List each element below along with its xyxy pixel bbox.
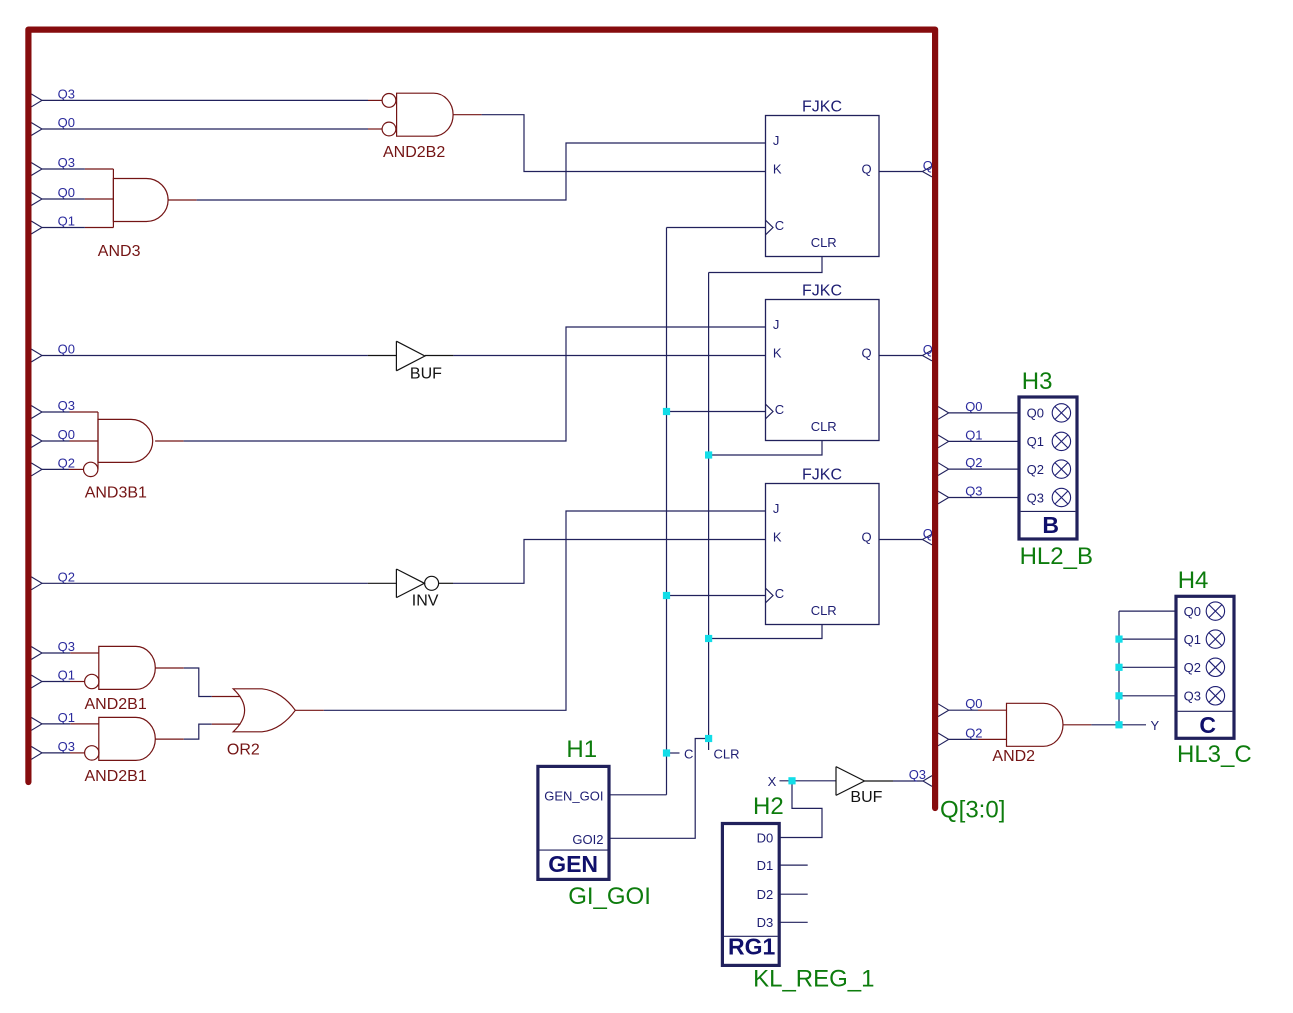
label HL2_B [1020, 543, 1093, 570]
junction dot 6 [705, 735, 712, 742]
svg-text:Q2: Q2 [1027, 462, 1044, 477]
svg-text:D3: D3 [757, 915, 774, 930]
svg-text:Q1: Q1 [58, 710, 75, 725]
svg-text:Q3: Q3 [58, 398, 75, 413]
svg-text:Q0: Q0 [965, 399, 982, 414]
svg-text:AND3: AND3 [98, 243, 141, 260]
svg-text:Q1: Q1 [965, 427, 982, 442]
svg-text:AND2: AND2 [992, 748, 1035, 765]
svg-text:Q0: Q0 [58, 185, 75, 200]
input tap Q0 (to AND3) [31, 185, 113, 205]
input tap Q3 (to AND2B1 b) [31, 739, 84, 759]
svg-text:FJKC: FJKC [802, 283, 842, 300]
svg-text:AND2B2: AND2B2 [383, 144, 445, 161]
input tap Q3 (to AND3) [31, 155, 113, 175]
wire OR2 out to FJKC3 J [324, 511, 766, 710]
label H1 [566, 736, 597, 763]
input tap Q0 (to AND3B1) [31, 427, 98, 447]
svg-text:K: K [773, 162, 782, 177]
svg-text:OR2: OR2 [227, 742, 260, 759]
svg-text:C: C [1199, 712, 1216, 738]
junction dot 11 [1115, 721, 1122, 728]
svg-text:Q: Q [862, 530, 872, 545]
input tap Q3 (to AND2B2) [31, 87, 382, 107]
input tap Q2 (to AND3B1) [31, 456, 83, 476]
bus tap Q0 to AND2 [938, 696, 1007, 716]
svg-text:AND2B1: AND2B1 [85, 696, 147, 713]
label H2 [753, 793, 784, 820]
net CLR vertical with taps [609, 257, 822, 839]
svg-text:Q2: Q2 [965, 455, 982, 470]
svg-text:Q: Q [923, 526, 933, 541]
wire BUF out Q3 to bus [893, 767, 932, 786]
svg-text:C: C [775, 402, 784, 417]
svg-text:Q2: Q2 [965, 725, 982, 740]
svg-text:INV: INV [412, 593, 439, 610]
svg-text:Q0: Q0 [965, 696, 982, 711]
svg-text:Q0: Q0 [1027, 406, 1044, 421]
label HL3_C [1177, 741, 1252, 768]
svg-text:Q: Q [923, 342, 933, 357]
svg-text:Q0: Q0 [58, 115, 75, 130]
input tap Q3 (to AND2B1 a) [31, 639, 98, 659]
register block RG1 (H2) [722, 824, 779, 966]
svg-text:AND2B1: AND2B1 [85, 768, 147, 785]
svg-text:KL_REG_1: KL_REG_1 [753, 965, 874, 992]
bus tap Q2 to AND2 [938, 725, 1007, 745]
svg-text:C: C [775, 586, 784, 601]
pin D1 stub [779, 864, 808, 866]
svg-text:Q0: Q0 [1184, 604, 1201, 619]
svg-text:D1: D1 [757, 858, 774, 873]
svg-text:H3: H3 [1022, 368, 1053, 395]
svg-text:HL2_B: HL2_B [1020, 543, 1093, 570]
bus tap Q0 to H3 [938, 399, 1019, 419]
svg-text:CLR: CLR [811, 235, 837, 250]
wire AND3 out to FJKC1 J [197, 143, 766, 200]
svg-text:Q1: Q1 [1027, 434, 1044, 449]
pin D2 stub [779, 893, 808, 895]
label Q[3:0] [940, 796, 1005, 823]
junction dot 4 [705, 451, 712, 458]
junction dot 7 [788, 777, 795, 784]
bus bar Q[3:0] frame [28, 30, 935, 808]
svg-text:Q3: Q3 [909, 767, 926, 782]
svg-text:Q: Q [862, 346, 872, 361]
lamp block HL3_C (H4) [1176, 596, 1234, 738]
svg-text:K: K [773, 530, 782, 545]
svg-text:Q0: Q0 [58, 427, 75, 442]
flip-flop FJKC (bottom) [766, 467, 880, 625]
svg-text:GOI2: GOI2 [572, 832, 603, 847]
wire FJKC3 Q output to bus [879, 526, 933, 545]
svg-text:Q1: Q1 [1184, 632, 1201, 647]
svg-text:Q3: Q3 [1184, 689, 1201, 704]
junction dot 9 [1115, 664, 1122, 671]
svg-text:Q3: Q3 [58, 155, 75, 170]
svg-text:GEN: GEN [548, 851, 598, 877]
wire BUF out to FJKC2 K [453, 355, 765, 357]
svg-text:X: X [768, 774, 777, 789]
label KL_REG_1 [753, 965, 874, 992]
junction dot 2 [663, 592, 670, 599]
svg-text:Q2: Q2 [58, 456, 75, 471]
wire AND2B1b out to OR2 in2 [184, 724, 212, 739]
label H3 [1022, 368, 1053, 395]
svg-text:K: K [773, 346, 782, 361]
svg-text:Q3: Q3 [58, 739, 75, 754]
svg-text:BUF: BUF [850, 789, 882, 806]
AND gate AND2B2 [382, 93, 482, 161]
svg-text:Q3: Q3 [965, 484, 982, 499]
svg-text:J: J [773, 133, 780, 148]
input tap Q1 (to AND2B1 b) [31, 710, 98, 730]
svg-text:Q0: Q0 [58, 342, 75, 357]
wire tree to H4 inputs [1119, 611, 1176, 725]
junction dot 5 [705, 635, 712, 642]
svg-text:Q2: Q2 [58, 570, 75, 585]
wire INV out to FJKC3 K [453, 540, 766, 584]
junction dot 10 [1115, 692, 1122, 699]
net C (clock) vertical with taps [609, 228, 766, 795]
svg-text:Q3: Q3 [58, 639, 75, 654]
AND gate AND2B1 (lower) [85, 717, 184, 785]
net Y from AND2 [1091, 718, 1159, 733]
input tap Q1 (to AND3) [31, 214, 113, 234]
svg-text:C: C [684, 746, 693, 761]
label H4 [1178, 567, 1209, 594]
input tap Q3 (to AND3B1) [31, 398, 98, 418]
OR gate OR2 [212, 689, 324, 759]
svg-text:FJKC: FJKC [802, 467, 842, 484]
bus tap Q2 to H3 [938, 455, 1019, 475]
svg-text:Q[3:0]: Q[3:0] [940, 796, 1005, 823]
svg-text:D0: D0 [757, 830, 774, 845]
flip-flop FJKC (middle) [766, 283, 880, 441]
wire FJKC2 Q output to bus [879, 342, 933, 361]
svg-text:Q1: Q1 [58, 214, 75, 229]
svg-text:RG1: RG1 [728, 933, 776, 959]
svg-text:Y: Y [1151, 718, 1160, 733]
svg-text:C: C [775, 218, 784, 233]
input tap Q0 (to AND2B2) [31, 115, 382, 135]
svg-text:Q1: Q1 [58, 668, 75, 683]
svg-text:H4: H4 [1178, 567, 1209, 594]
svg-text:B: B [1042, 512, 1059, 538]
svg-text:Q2: Q2 [1184, 660, 1201, 675]
svg-text:CLR: CLR [811, 419, 837, 434]
buffer BUF (left) [396, 341, 453, 382]
svg-text:CLR: CLR [811, 603, 837, 618]
svg-text:H1: H1 [566, 736, 597, 763]
input tap Q1 (to AND2B1 a) [31, 668, 84, 688]
svg-text:CLR: CLR [714, 746, 740, 761]
svg-text:D2: D2 [757, 887, 774, 902]
inverter INV [396, 569, 453, 610]
svg-text:J: J [773, 501, 780, 516]
junction dot 3 [663, 749, 670, 756]
svg-text:FJKC: FJKC [802, 99, 842, 116]
buffer BUF (bottom) [836, 767, 893, 807]
flip-flop FJKC (top) [766, 99, 880, 257]
AND gate AND3 [98, 169, 197, 260]
AND gate AND2 [992, 703, 1091, 765]
svg-text:BUF: BUF [410, 365, 442, 382]
svg-text:Q: Q [923, 158, 933, 173]
lamp block HL2_B (H3) [1019, 397, 1077, 539]
svg-text:GEN_GOI: GEN_GOI [544, 788, 603, 803]
svg-text:Q3: Q3 [58, 87, 75, 102]
wire AND3B1 out to FJKC2 J [184, 327, 766, 441]
net X with label and branch to RG1 D0 [768, 774, 836, 837]
bus tap Q1 to H3 [938, 427, 1019, 447]
svg-text:Q: Q [862, 162, 872, 177]
pin D3 stub [779, 921, 808, 923]
svg-text:HL3_C: HL3_C [1177, 741, 1252, 768]
svg-text:GI_GOI: GI_GOI [568, 883, 651, 910]
input tap Q2 (to INV) [31, 570, 396, 590]
junction dot 1 [663, 408, 670, 415]
AND gate AND2B1 (upper) [85, 646, 184, 713]
wire FJKC1 Q output to bus [879, 158, 933, 177]
input tap Q0 (to BUF) [31, 342, 396, 362]
svg-text:Q3: Q3 [1027, 490, 1044, 505]
svg-text:J: J [773, 317, 780, 332]
svg-text:H2: H2 [753, 793, 784, 820]
AND gate AND3B1 [84, 412, 184, 502]
label GI_GOI [568, 883, 651, 910]
svg-text:AND3B1: AND3B1 [85, 485, 147, 502]
wire AND2B2 out to FJKC1 K [482, 115, 766, 172]
generator block GEN (H1) [538, 766, 609, 879]
junction dot 8 [1115, 636, 1122, 643]
bus tap Q3 to H3 [938, 484, 1019, 504]
wire AND2B1a out to OR2 in1 [184, 668, 212, 697]
